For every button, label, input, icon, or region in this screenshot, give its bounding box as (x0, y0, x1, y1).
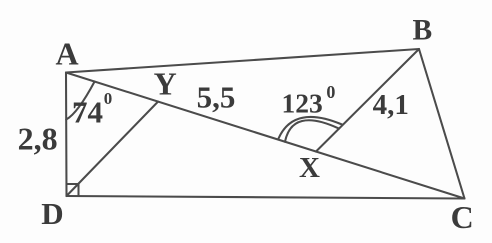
svg-text:5,5: 5,5 (197, 79, 236, 114)
svg-text:4,1: 4,1 (373, 89, 409, 121)
wire diagonal AC (66, 73, 465, 199)
arc angle 123 at X inner (285, 120, 339, 141)
wire side BC (419, 49, 465, 199)
svg-text:74: 74 (72, 95, 103, 130)
svg-text:X: X (299, 152, 320, 184)
svg-text:2,8: 2,8 (18, 120, 58, 156)
svg-text:D: D (41, 196, 63, 231)
svg-text:A: A (55, 36, 78, 72)
wire side AB (66, 49, 419, 73)
wire side DC (67, 196, 465, 199)
wire segment DY (67, 102, 159, 196)
svg-text:0: 0 (104, 89, 113, 108)
svg-text:B: B (413, 15, 433, 47)
arc angle 123 at X outer (279, 117, 342, 138)
svg-text:Y: Y (154, 66, 177, 102)
svg-text:C: C (451, 199, 474, 235)
svg-text:123: 123 (282, 87, 323, 118)
svg-text:0: 0 (326, 82, 335, 102)
arc angle 74 at A (66, 82, 94, 120)
wire segment XB (316, 49, 419, 152)
right-angle mark at D (67, 184, 79, 196)
wire side AD (65, 73, 68, 197)
